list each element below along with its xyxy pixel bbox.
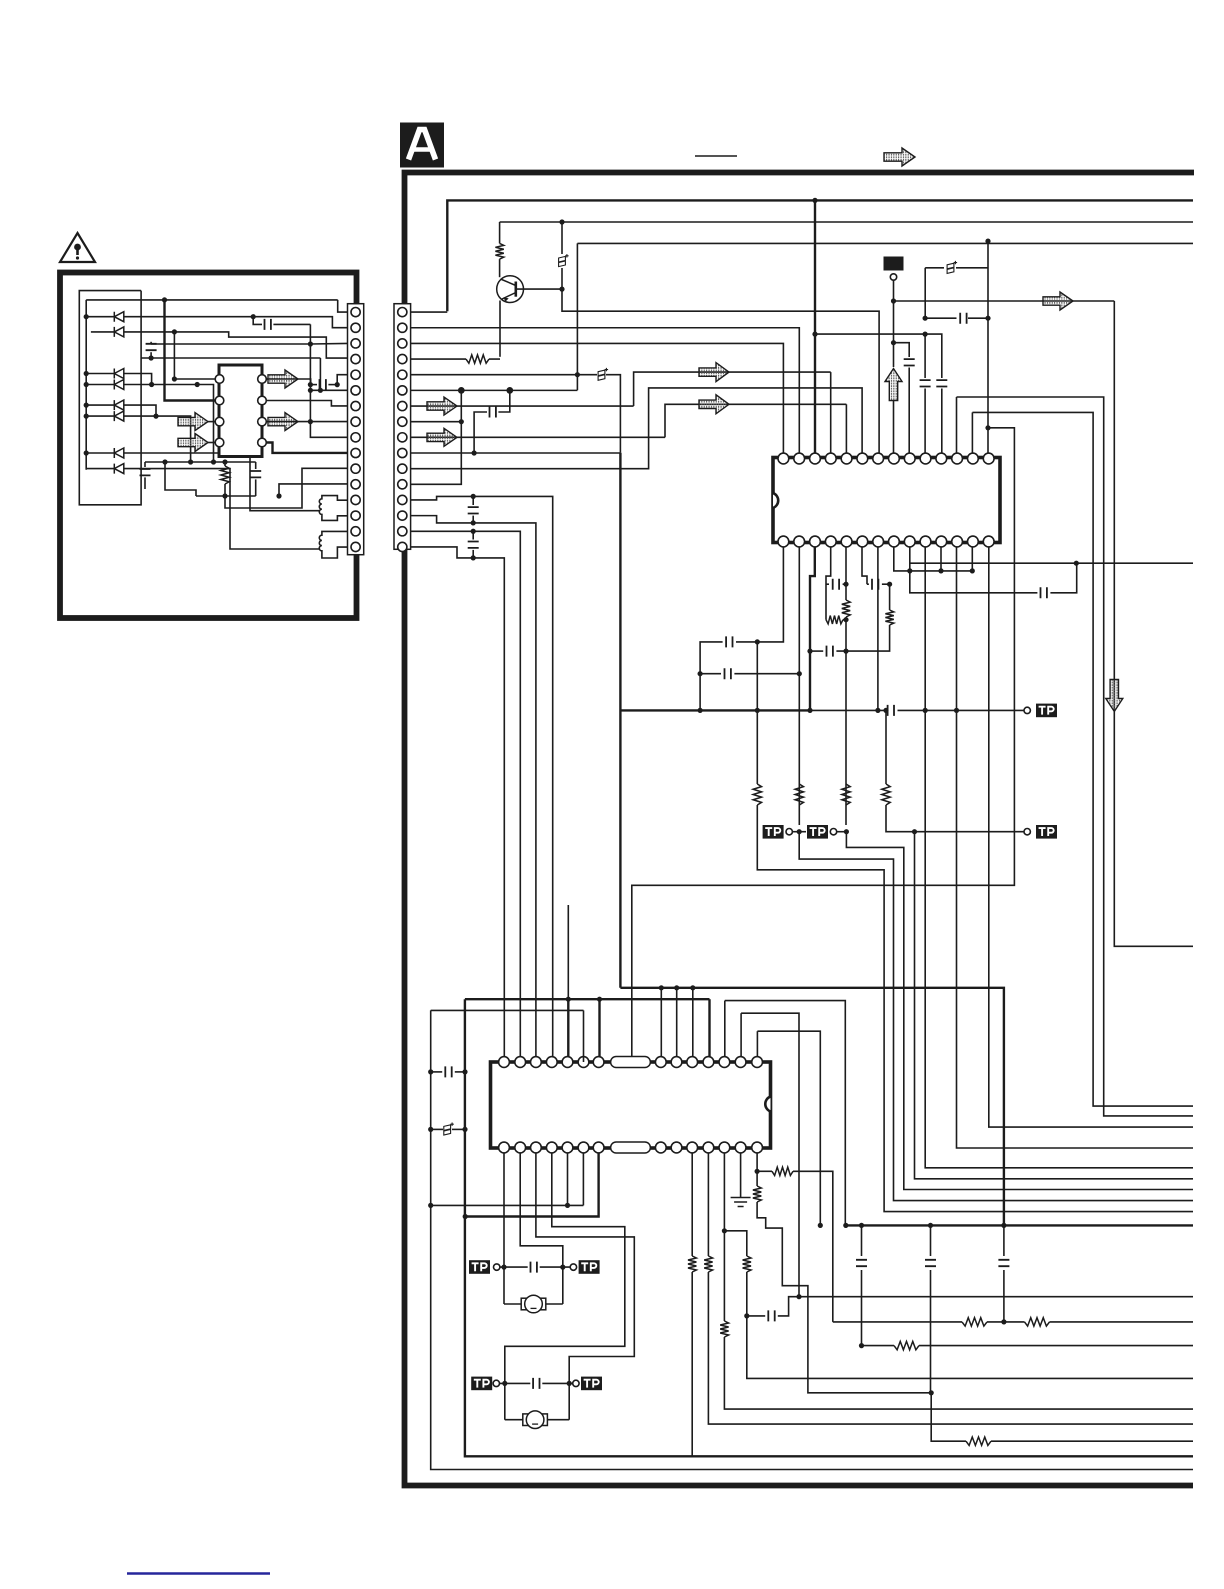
wire D5 left: [86, 404, 114, 406]
U2 bottom pin 28: [499, 1142, 510, 1153]
U2 top pin 2: [515, 1057, 526, 1068]
wire C30 lead: [253, 317, 262, 325]
diode D6: [114, 411, 124, 421]
capacitor C23: [531, 1262, 537, 1273]
connector CN2 pin 6: [398, 386, 407, 395]
wire mid riser to CN1 pin9: [310, 324, 347, 437]
test point circle: [890, 274, 896, 280]
resistor R20: [966, 1437, 991, 1445]
wire D1 left: [86, 316, 114, 318]
U1 top pin 15: [778, 453, 789, 464]
capacitor C2 polarized on base feed: [561, 222, 563, 254]
wire cap column: [861, 1225, 863, 1256]
wire net B+ line to right sheet: [577, 242, 1193, 244]
U2 bottom pin 16: [735, 1142, 746, 1153]
wire R2 to Q1 emitter: [489, 358, 500, 360]
wire C9 net riser to U1 pin14: [987, 241, 989, 453]
wire TP row2: [500, 1382, 531, 1384]
wire base node to IC1 pin7: [562, 289, 879, 453]
wire CN2-14 to IC2 pin3: [411, 516, 536, 1062]
wire to right sheet: [1050, 1321, 1194, 1323]
wire B+ riser: [576, 243, 578, 390]
motor M2: [505, 1419, 523, 1421]
inter-sheet arrow A: [699, 363, 729, 382]
connector CN2 body: [394, 304, 411, 550]
U1 bottom pin 3: [952, 536, 963, 547]
polarized marker B+: [598, 368, 608, 381]
wire to IC2 pin9: [676, 988, 678, 1062]
wire to CN1 pin6: [310, 389, 347, 391]
ground: [740, 1153, 742, 1197]
wire U2 pin22 thick drop: [465, 1153, 598, 1217]
capacitor C5: [472, 531, 474, 539]
top reference line segment: [695, 155, 737, 157]
wire vertical tie CN2-6/8/12: [411, 390, 462, 484]
connector CN1 pin 10: [351, 448, 360, 457]
capacitor C16: [888, 705, 894, 716]
U1 bottom pin 1: [983, 536, 994, 547]
U2 top pin 11: [703, 1057, 714, 1068]
wire CN2-15 to IC2 pin2: [411, 531, 521, 1062]
wire VM to right sheet: [1114, 301, 1193, 946]
resistor R13: [772, 1167, 793, 1175]
wire sense loop left: [431, 1009, 584, 1011]
wire inner loop bottom: [465, 999, 1193, 1456]
wire to IC2 pin8: [660, 988, 662, 1062]
capacitor C9: [960, 313, 966, 324]
U1 top pin 28: [983, 453, 994, 464]
wire to CN1 pin8: [266, 421, 347, 423]
wire staircase net: [757, 1202, 931, 1393]
wire U1 pin11 drop: [940, 547, 942, 571]
U2 bottom pin 24: [562, 1142, 573, 1153]
wire to right sheet: [708, 1272, 1193, 1424]
wire Q1 base: [516, 288, 562, 290]
wire U1 pin7 drop: [877, 547, 879, 710]
wire CN2-7 to arrow A: [634, 372, 831, 406]
section label A: [400, 123, 444, 168]
wire D4 left: [86, 384, 114, 386]
resistor R8: [826, 616, 843, 624]
connector CN1 pin 8: [351, 417, 360, 426]
U3 right pin 7: [258, 396, 267, 405]
wire arrow out1: [266, 379, 310, 385]
wire pin10 net to right sheet: [925, 710, 1193, 1167]
wire D2 to CN1 pin4: [124, 332, 348, 358]
wire U2 pin24 drop: [567, 1153, 569, 1205]
capacitor C32: [320, 379, 326, 390]
resistor R22: [1025, 1318, 1050, 1326]
wire D8 to coil L2: [124, 469, 320, 549]
wire +B jog: [925, 267, 944, 269]
U1 bottom pin 10: [841, 536, 852, 547]
wire U2 pin15 drop: [756, 1153, 758, 1186]
wire R6 to right sheet: [757, 805, 1193, 1212]
diode D7: [114, 448, 124, 458]
capacitor C14: [867, 583, 869, 585]
U1 top pin 24: [920, 453, 931, 464]
test point TP2: [1024, 829, 1030, 835]
test point TP1: [1024, 707, 1030, 713]
wire R6 column top: [756, 642, 758, 711]
wire feeder drop IC2 pin5: [567, 999, 569, 1062]
test point TP4: [807, 825, 828, 839]
wire U1 pin9 long net to right: [910, 547, 1193, 563]
wire D3 right: [124, 374, 152, 385]
resistor R14: [753, 1186, 761, 1202]
wire net from CN pin1 to right sheet: [447, 200, 1193, 311]
U2 top pin 6: [578, 1057, 589, 1068]
U2 top pin 9: [671, 1057, 682, 1068]
wire drop: [319, 358, 321, 390]
capacitor C4: [472, 496, 474, 505]
coil L1: [319, 496, 347, 521]
connector CN1 pin 4: [351, 354, 360, 363]
diode D3: [114, 369, 124, 379]
connector CN1 pin 5: [351, 370, 360, 379]
U3 left pin 3: [215, 417, 224, 426]
wire to right sheet: [991, 1440, 1193, 1442]
U1 bottom pin 13: [794, 536, 805, 547]
test point TP5: [469, 1260, 490, 1274]
wire IC2 pin14 loop: [757, 1031, 820, 1225]
U2 bottom pin 19: [687, 1142, 698, 1153]
diode D5: [114, 400, 124, 410]
resistor R2: [466, 355, 489, 363]
wire B+ to bus: [606, 375, 620, 453]
wire U1 pin1 net: [736, 547, 783, 642]
wire thick feeder: [465, 998, 710, 1000]
wire R13 net down: [793, 1171, 833, 1322]
U1 bottom pin 12: [810, 536, 821, 547]
wire D7 to coil L1: [124, 453, 320, 511]
test point TP6: [570, 1264, 576, 1270]
wire to right sheet: [724, 1337, 1193, 1409]
wire thick bus lower: [620, 988, 1004, 1226]
U1 top pin 27: [967, 453, 978, 464]
wire U1 pin2 column: [798, 547, 800, 825]
test point TP8: [573, 1380, 579, 1386]
connector CN1 pin 6: [351, 386, 360, 395]
connector CN2 pin 11: [398, 464, 407, 473]
wire CN2-10: [411, 452, 621, 454]
inter-sheet arrow U3 in1: [178, 413, 208, 431]
capacitor C33: [144, 462, 146, 467]
U1 top pin 26: [952, 453, 963, 464]
black label box: [884, 257, 904, 271]
wire CN2-1: [411, 311, 448, 313]
U2 top pin 10: [687, 1057, 698, 1068]
test point TP3: [763, 825, 784, 839]
wire sensor block outline: [79, 291, 141, 505]
wire TP row1: [500, 1266, 528, 1268]
connector CN2 pin 10: [398, 448, 407, 457]
connector CN2 pin 5: [398, 370, 407, 379]
wire to IC2 pin10: [692, 988, 694, 1062]
wire to right sheet: [778, 1297, 1193, 1316]
wire arrow B to IC1 pin5: [845, 404, 847, 453]
wire U1 pin14b net to right sheet: [989, 547, 1193, 1127]
capacitor C24: [533, 1378, 539, 1389]
wire net collector line to right sheet: [500, 221, 1193, 223]
wire thick net to right sheet: [846, 1224, 1193, 1226]
U1 bottom pin 2: [967, 536, 978, 547]
polarized marker C22: [431, 1128, 443, 1130]
connector CN2 pin 9: [398, 433, 407, 442]
wire diode anode rail: [85, 300, 87, 470]
U2 bottom pin 18: [703, 1142, 714, 1153]
reference link line: [127, 1572, 270, 1574]
op-amp/servo IC U1: [773, 458, 1000, 543]
capacitor C27: [925, 1260, 936, 1266]
wire D6 to under-IC rail: [124, 416, 191, 462]
wire label node down: [893, 280, 895, 367]
capacitor C30: [265, 319, 271, 330]
connector CN1 pin 15: [351, 527, 360, 536]
wire to right sheet: [919, 1345, 1193, 1347]
wire row0 top: [86, 299, 338, 301]
U2 bottom pin 23: [578, 1142, 589, 1153]
capacitor C31: [150, 352, 152, 358]
inter-sheet arrow B: [699, 395, 729, 414]
U1 bottom pin 11: [825, 536, 836, 547]
resistor R10: [885, 610, 893, 625]
servo IC U2: [491, 1062, 771, 1148]
capacitor C6: [904, 359, 915, 365]
wire to CN1 pin1: [338, 300, 348, 312]
wire CN2-8: [411, 421, 462, 423]
wire C11 row: [700, 673, 721, 675]
capacitor C7: [924, 334, 926, 378]
wire U2 pin18 drop: [707, 1153, 709, 1256]
capacitor C12: [826, 583, 829, 585]
preamp IC U3: [219, 365, 262, 457]
connector CN2 pin 12: [398, 480, 407, 489]
U2 bottom pin 22: [593, 1142, 604, 1153]
wire D2 left: [91, 331, 114, 333]
capacitor C11: [725, 668, 731, 679]
connector CN2 pin 7: [398, 401, 407, 410]
wire U1 pin12 drop: [956, 547, 958, 710]
wire TP2 branch to right sheet: [915, 832, 1194, 1179]
capacitor C3: [474, 412, 487, 453]
U1 bottom pin 8: [873, 536, 884, 547]
wire thick bus branch: [620, 709, 810, 711]
capacitor C8: [936, 380, 947, 386]
resistor R1: [499, 222, 501, 243]
wire to right sheet: [747, 1272, 1193, 1378]
wire CN2-2 to IC1 pin2: [411, 328, 800, 453]
capacitor C10: [726, 636, 732, 647]
wire to CN1 pin5: [337, 375, 347, 385]
resistor R23: [224, 462, 226, 466]
wire Q1 emitter to R2: [499, 301, 501, 357]
motor M1: [504, 1303, 521, 1305]
U1 top pin 18: [825, 453, 836, 464]
capacitor C20: [998, 1260, 1009, 1266]
U2 bottom pin 17: [719, 1142, 730, 1153]
connector CN2 pin 8: [398, 417, 407, 426]
U1 top pin 23: [904, 453, 915, 464]
wire U1 pin6 drop: [862, 547, 867, 584]
wire C15 row: [910, 563, 1038, 593]
U1 top pin 17: [810, 453, 821, 464]
resistor R21: [833, 1321, 962, 1323]
wire feeder drop IC2 pin11: [708, 999, 710, 1062]
U1 top pin 19: [841, 453, 852, 464]
wire U1 pin14 to IC2 top pad: [632, 428, 1015, 1057]
U3 right pin 8: [258, 375, 267, 384]
wire C31 bottom row: [141, 357, 320, 359]
U1 bottom pin 6: [904, 536, 915, 547]
capacitor C21: [431, 1071, 443, 1073]
capacitor C13: [810, 650, 823, 652]
U2 bottom pad: [611, 1142, 651, 1153]
wire under-IC rail: [145, 461, 256, 463]
wire CN2-13 to IC2 pin4: [411, 496, 553, 1062]
resistor R18: [688, 1256, 696, 1272]
wire VM line: [894, 300, 1115, 302]
U1 bottom pin 5: [920, 536, 931, 547]
connector CN1 pin 14: [351, 511, 360, 520]
connector CN2 pin 13: [398, 495, 407, 504]
inter-sheet arrow U3 out1: [268, 370, 298, 388]
U1 top pin 25: [936, 453, 947, 464]
connector CN2 pin 14: [398, 511, 407, 520]
wire CN2-16 to IC2 pin1: [411, 547, 505, 1062]
wire feeder drop IC2 pin7: [598, 999, 600, 1062]
inter-sheet arrow top: [884, 148, 915, 166]
wire D8 left: [86, 468, 114, 470]
wire branch: [724, 1231, 746, 1256]
wire thick bus down: [619, 453, 621, 988]
wire CN2-7: [411, 405, 634, 407]
resistor R16: [743, 1256, 751, 1272]
connector CN2 pin 4: [398, 354, 407, 363]
coil L2: [319, 531, 347, 558]
wire U3 pin1: [174, 378, 215, 380]
wire U1 pin13 to right sheet: [972, 412, 1193, 1106]
connector CN1 pin 1: [351, 308, 360, 317]
wire U2 pin27 to M1 right: [520, 1153, 563, 1304]
transistor Q1: [497, 276, 524, 303]
U1 bottom pin 9: [857, 536, 868, 547]
U2 top pin 14: [752, 1057, 763, 1068]
test point TP7: [471, 1377, 492, 1391]
wire CN2-11 to IC1 pin6: [411, 388, 862, 469]
U2 bottom pin 27: [515, 1142, 526, 1153]
wire C3 to CN2-6: [498, 390, 509, 412]
wire CN2-6: [411, 389, 578, 391]
U2 top pin 7: [593, 1057, 604, 1068]
wire pin12 net to right sheet: [957, 710, 1194, 1148]
wire C31 top row: [151, 343, 310, 345]
connector CN1 pin 3: [351, 339, 360, 348]
capacitor C26: [856, 1260, 867, 1266]
wire IC2 pin12 loop: [725, 1001, 846, 1226]
wire U2 pins 23/24 row: [431, 1204, 584, 1206]
wire D5 right: [124, 405, 156, 416]
U3 left pin 2: [215, 396, 224, 405]
U1 top pin 21: [873, 453, 884, 464]
inter-sheet arrow U3 out2: [268, 413, 298, 431]
resistor R17: [704, 1256, 712, 1272]
capacitor C15: [1041, 587, 1047, 598]
wire U2 pin19 drop: [691, 1153, 693, 1256]
wire U2 pin25 to M2 right: [536, 1153, 634, 1420]
wire CN2-9 to arrow B: [665, 404, 846, 437]
inter-sheet arrow up: [885, 369, 902, 401]
wire D6 left: [86, 415, 114, 417]
inter-sheet arrow down: [1106, 680, 1123, 712]
wire U2 pin23 drop: [582, 1153, 584, 1205]
wire branch to C6: [894, 343, 910, 357]
U2 bottom pin 26: [531, 1142, 542, 1153]
wire CN2-9: [411, 436, 665, 438]
U2 top pin 8: [655, 1057, 666, 1068]
wire thick U3 pin5 to CN1 pin10: [266, 443, 347, 453]
wire under U3 left: [165, 462, 196, 496]
wire thick to U3 pin2: [165, 300, 216, 401]
main schematic border A: [405, 173, 1195, 1486]
wire R1 to Q1 collector: [499, 259, 501, 277]
capacitor C25: [747, 1315, 765, 1317]
diode D8: [114, 464, 124, 474]
wire cap column2: [930, 1225, 932, 1256]
U2 top pin 3: [531, 1057, 542, 1068]
wire U2 pin28 to M1: [503, 1153, 505, 1304]
wire outer loop bottom: [431, 1010, 1193, 1469]
U3 right pin 6: [258, 417, 267, 426]
wire D1 to CN1 pin2: [124, 317, 348, 328]
wire U1 pin13 drop: [971, 547, 973, 571]
diode D1: [114, 312, 124, 322]
U3 left pin 4: [215, 438, 224, 447]
wire CN2-3 to IC1 pin1: [411, 343, 784, 453]
wire to CN1 pin12: [279, 484, 348, 496]
inter-sheet arrow CN2-7: [427, 397, 457, 415]
wire to C8: [925, 334, 942, 378]
U2 top pin 4: [546, 1057, 557, 1068]
U1 top pin 20: [857, 453, 868, 464]
warning triangle: [60, 233, 95, 262]
connector CN1 pin 7: [351, 401, 360, 410]
inter-sheet arrow U3 in2: [178, 434, 208, 452]
resistor R12: [842, 784, 850, 805]
U2 top pin 1: [499, 1057, 510, 1068]
connector CN2 pin 3: [398, 339, 407, 348]
wire U1 pin5 column: [845, 547, 847, 600]
U3 left pin 1: [215, 375, 224, 384]
wire to CN1 pin3: [310, 342, 347, 345]
inter-sheet arrow CN2-9: [427, 428, 457, 446]
resistor R15: [720, 1321, 728, 1337]
wire U1 pin10 drop: [924, 547, 926, 710]
wire D3 left: [86, 373, 114, 375]
wire CN2-5 B+ node: [411, 374, 597, 376]
U2 top pin 13: [735, 1057, 746, 1068]
U1 bottom pin 14: [778, 536, 789, 547]
connector CN1 pin 16: [351, 542, 360, 551]
U3 right pin 5: [258, 438, 267, 447]
wire IC2 pin13 loop: [741, 1013, 799, 1296]
connector CN2 pin 16: [398, 542, 407, 551]
connector CN2 pin 15: [398, 527, 407, 536]
wire C9 left lead: [925, 317, 956, 319]
wire arrow A to IC1 pin4: [830, 372, 832, 453]
U2 bottom pin 15: [752, 1142, 763, 1153]
U2 top pin 5: [562, 1057, 573, 1068]
